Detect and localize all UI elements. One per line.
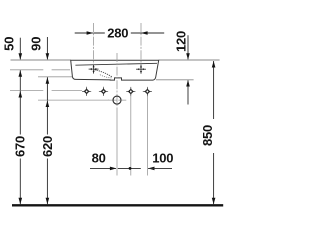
fixing hole cross 2 [99, 87, 108, 96]
svg-text:90: 90 [29, 37, 44, 51]
dim 120 arrowhead [186, 53, 190, 60]
floor line [12, 204, 223, 206]
dim 100 arrow [148, 167, 155, 171]
svg-text:850: 850 [200, 125, 215, 146]
svg-text:670: 670 [13, 136, 28, 157]
tap hole cross right [136, 65, 146, 74]
dim 80-100 joint segment with dot [118, 167, 141, 169]
extension line tap-hole level (50 dim) [10, 69, 70, 71]
fixing hole cross 1 [82, 87, 91, 96]
svg-text:50: 50 [2, 37, 17, 51]
fixing hole cross 3 [126, 87, 135, 96]
fixing hole cross 4 [143, 87, 152, 96]
basin bowl hidden dotted curve [95, 70, 113, 77]
dim 120 line [187, 35, 189, 59]
drain circle [113, 96, 121, 104]
dim 280 label [105, 26, 131, 38]
dim 280 line [75, 32, 165, 34]
dim 90 upper arrow [46, 37, 48, 59]
extension line basin bottom right (120 dim) [156, 79, 194, 81]
extension line below fixing hole x130.8 [130, 96, 132, 176]
extension line fixing-hole level (670 dim) [10, 90, 82, 92]
svg-text:280: 280 [107, 26, 128, 41]
dim 280 arrowheads [87, 31, 94, 35]
centerline drain vertical [116, 53, 118, 108]
extension line drain level (620 dim) [38, 99, 109, 101]
rim line left extension [11, 59, 71, 61]
centerline drain horizontal [108, 99, 126, 101]
centerline tap hole right [140, 23, 142, 74]
dim 620 label [41, 135, 53, 159]
basin outline [71, 60, 159, 80]
centerline tap hole left [93, 23, 95, 74]
dim 620 line [46, 101, 48, 205]
dim 850 line [213, 61, 215, 204]
svg-text:80: 80 [92, 150, 106, 165]
tap hole cross left [89, 65, 99, 74]
svg-text:620: 620 [40, 136, 55, 157]
dim 50 lower arrow [19, 70, 21, 90]
svg-text:120: 120 [174, 31, 189, 52]
dim 120 lower arrow [187, 80, 189, 104]
dim 670 label [14, 135, 26, 159]
dim 850 label [208, 119, 220, 153]
extension line basin-bottom level (90 dim) [38, 76, 74, 78]
dim 670 line [19, 91, 21, 204]
dim 80 line [90, 167, 116, 169]
dim 50 upper arrow [19, 38, 21, 60]
rim line right extension [159, 59, 220, 61]
dim 90 lower arrow [46, 77, 48, 100]
svg-text:100: 100 [152, 150, 173, 165]
extension line below fixing hole x147.4 [146, 96, 148, 176]
basin inner rim line [75, 63, 157, 65]
white background [0, 0, 228, 228]
